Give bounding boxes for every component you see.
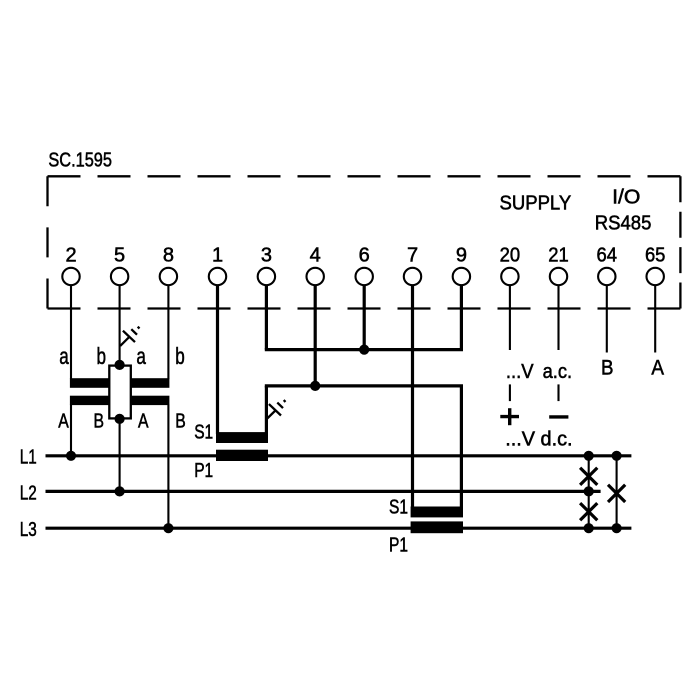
svg-text:a.c.: a.c. [543,361,573,383]
svg-text:5: 5 [114,244,125,266]
wire VT1 primary to L1 [70,405,72,456]
junction dot link1 L1 [584,451,594,461]
fuse link column 2 [616,456,618,528]
line L2 [46,490,601,493]
wire terminal 64 RS485 B [606,285,608,352]
terminal 4 [307,244,324,285]
junction dot link2 L1 [612,451,622,461]
svg-text:...V: ...V [506,361,534,383]
svg-text:L2: L2 [20,482,37,504]
X mark link1 upper [580,468,597,485]
svg-text:I/O: I/O [612,186,640,208]
junction dot link1 L3 [584,523,594,533]
wire terminal 9 down [460,285,463,349]
wire terminal 20 supply [509,285,511,350]
svg-text:2: 2 [65,244,76,266]
terminal 1 [209,244,226,285]
CT2 primary bar P1 [411,521,463,533]
wire terminal 5 to VT link box [119,285,121,365]
svg-text:P1: P1 [389,535,408,557]
junction dot bus CT commons [310,381,320,391]
junction dot bus 3-6-9 [359,345,369,355]
svg-text:b: b [96,343,106,369]
CT1 secondary bar S1 [216,432,268,443]
svg-text:64: 64 [597,244,618,266]
svg-text:65: 65 [645,244,666,266]
VT2 secondary winding bar [131,378,170,388]
terminal 7 [404,244,421,285]
terminal 2 [62,244,79,285]
bus CT commons [265,384,463,387]
svg-text:L1: L1 [20,447,37,469]
line L3 [46,527,632,530]
terminal 21 [548,244,569,285]
terminal 5 [111,244,128,285]
svg-text:a: a [136,343,146,369]
svg-text:S1: S1 [389,497,408,519]
VT2 primary winding bar [131,396,170,405]
wire terminal 3 down [265,285,268,349]
svg-text:20: 20 [500,244,521,266]
meter box top edge (dashed) [48,175,681,177]
svg-text:a: a [59,343,69,369]
junction dot VT link bottom [115,414,125,424]
terminal 64 [597,244,618,285]
terminal 9 [453,244,470,285]
plus symbol [500,408,519,425]
wire terminal 21 supply [557,285,559,350]
svg-text:B: B [93,410,104,432]
svg-text:...V d.c.: ...V d.c. [505,429,572,451]
wire terminal 4 down [314,285,317,386]
wire CT1 S2 drop [265,386,268,434]
earth symbol on CT1 S2 wire [267,400,285,418]
wire VT2 primary to L3 [167,405,169,529]
wire terminal 6 down [363,285,366,349]
meter box bottom edge (dashed) [48,307,681,309]
junction dot VT link on L2 [115,486,125,496]
terminal 65 [645,244,666,285]
wire terminal 8 to VT2 secondary [167,285,169,379]
meter box right edge (dashed) [679,176,681,308]
svg-text:1: 1 [212,244,223,266]
minus symbol [549,415,568,418]
svg-text:L3: L3 [20,519,37,541]
svg-text:A: A [651,357,664,380]
terminal 3 [258,244,275,285]
svg-text:A: A [138,410,149,432]
svg-text:SUPPLY: SUPPLY [500,192,572,214]
fuse link column 1 [588,456,590,528]
svg-text:P1: P1 [194,460,213,482]
svg-text:RS485: RS485 [595,213,652,235]
svg-text:6: 6 [359,244,370,266]
svg-text:7: 7 [407,244,418,266]
terminal 20 [500,244,521,285]
svg-text:3: 3 [261,244,272,266]
junction dot link1 L2 [584,486,594,496]
wire terminal 65 RS485 A [654,285,656,352]
CT1 primary bar P1 [216,450,268,461]
junction dot VT1 on L1 [66,451,76,461]
terminal 8 [160,244,177,285]
junction dot VT2 on L3 [163,523,173,533]
wire VT link to L2 [119,419,121,492]
bus terminals 3-6-9 [265,348,463,351]
junction dot link2 L3 [612,523,622,533]
earth symbol on wire 5 [120,327,139,346]
svg-text:b: b [175,343,185,369]
svg-text:8: 8 [163,244,174,266]
supply stub under ...V [509,384,511,401]
svg-text:B: B [601,357,614,380]
line L1 [46,454,632,457]
wire terminal 1 to CT1 S1 [216,285,219,434]
VT1 primary winding bar [70,396,109,405]
wire terminal 2 to VT1 secondary [70,285,72,379]
VT1 secondary winding bar [70,378,109,388]
svg-text:S1: S1 [194,422,213,444]
svg-text:9: 9 [456,244,467,266]
svg-text:SC.1595: SC.1595 [48,149,112,171]
wire terminal 7 to CT2 S1 [411,285,414,508]
terminal 6 [356,244,373,285]
VT link rectangle [109,366,131,419]
svg-text:A: A [58,410,69,432]
wire CT2 S2 drop [460,386,463,508]
X mark link1 lower [580,503,597,520]
CT2 secondary bar S1 [411,507,463,518]
svg-text:4: 4 [310,244,321,266]
svg-text:21: 21 [548,244,569,266]
meter box left edge (dashed) [46,176,48,308]
svg-text:B: B [175,410,186,432]
supply stub under a.c. [557,384,559,401]
X mark link2 middle [608,485,625,502]
junction dot VT link top [115,360,125,370]
